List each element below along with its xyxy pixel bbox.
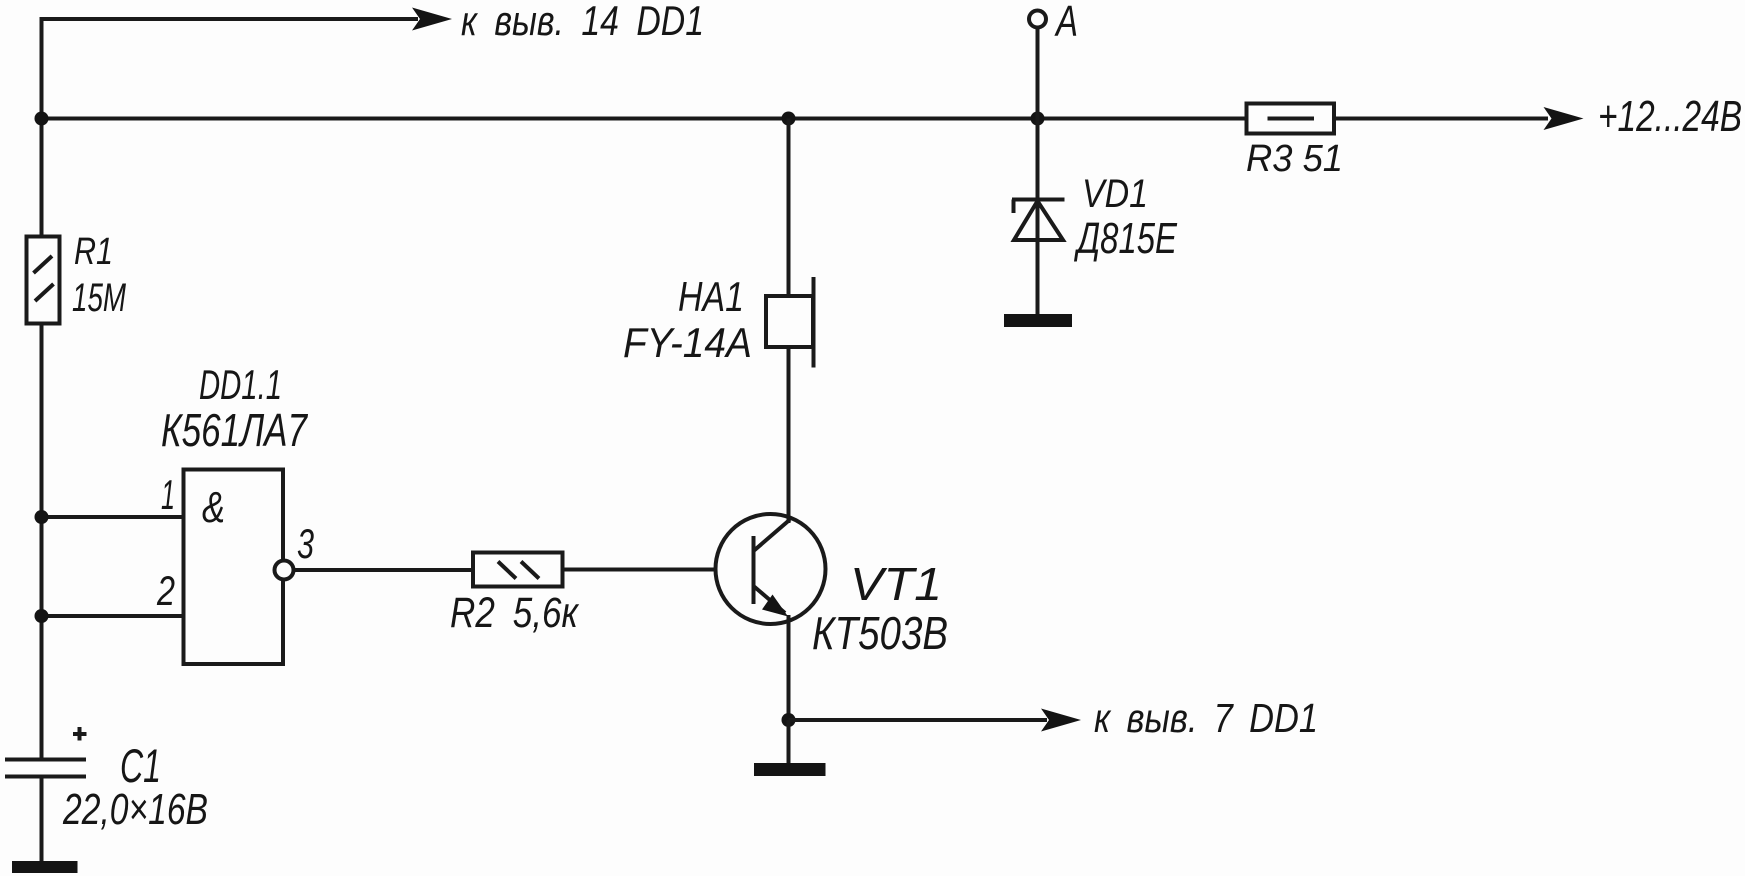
node A terminal circle <box>1029 11 1046 28</box>
VT1 emitter stroke <box>754 586 786 613</box>
capacitor C1 bottom plate <box>5 775 86 779</box>
junction: HA1 branch / bus <box>782 112 796 126</box>
svg-text:А: А <box>1054 0 1078 46</box>
zener VD1 cathode tick <box>1012 200 1016 214</box>
VT1 collector stroke <box>754 520 791 552</box>
R2 power slash marks <box>498 562 516 579</box>
wire: +V bus right segment after R3 <box>1334 117 1548 121</box>
svg-text:К561ЛА7: К561ЛА7 <box>161 404 308 456</box>
svg-text:VT1: VT1 <box>850 558 942 610</box>
buzzer HA1 body <box>766 296 813 347</box>
VT1 base bar <box>752 536 756 604</box>
svg-text:1: 1 <box>161 471 175 518</box>
wire: HA1 branch from bus <box>787 119 791 297</box>
svg-text:DD1.1: DD1.1 <box>199 361 282 408</box>
svg-text:к выв. 7 DD1: к выв. 7 DD1 <box>1094 695 1318 741</box>
svg-text:3: 3 <box>297 520 314 567</box>
wire: C1 to ground <box>40 777 44 865</box>
arrow +12...24V <box>1544 107 1584 130</box>
zener VD1 triangle <box>1014 201 1063 240</box>
resistor R1 body <box>27 237 60 324</box>
svg-text:R2 5,6к: R2 5,6к <box>450 589 579 637</box>
capacitor C1 top plate <box>5 758 86 762</box>
svg-text:НА1: НА1 <box>678 273 744 320</box>
ground (VD1) <box>1004 314 1072 327</box>
wire: HA1 to collector <box>787 347 791 523</box>
svg-text:к выв. 14 DD1: к выв. 14 DD1 <box>461 0 704 44</box>
ground (C1) <box>12 861 78 873</box>
svg-text:+12...24В: +12...24В <box>1598 92 1742 141</box>
junction: rail / input 1 <box>35 510 49 524</box>
arrow to pin 7 DD1 <box>1041 709 1081 732</box>
ground (emitter) <box>754 763 826 776</box>
C1 polarity plus sign <box>73 732 87 736</box>
wire: emitter down to node <box>787 615 791 722</box>
svg-text:FY-14A: FY-14A <box>623 319 752 366</box>
wire: emitter node to pin 7 arrow <box>789 718 1048 722</box>
arrow to pin 14 DD1 <box>412 8 452 31</box>
gate output inversion circle <box>275 561 294 580</box>
wire: left rail vertical <box>40 17 44 759</box>
wire: +V bus left segment <box>42 117 1247 121</box>
wire: top horizontal to pin 14 arrow <box>40 17 419 21</box>
wire: gate input 1 <box>42 515 184 519</box>
resistor R3 body <box>1247 104 1335 134</box>
svg-text:R1: R1 <box>74 231 113 273</box>
zener VD1 cathode bar <box>1012 198 1065 202</box>
wire: gate output to R2 <box>294 568 474 572</box>
svg-text:15М: 15М <box>72 276 126 320</box>
svg-text:2: 2 <box>156 567 175 614</box>
junction: rail / input 2 <box>35 609 49 623</box>
wire: gate input 2 <box>42 614 184 618</box>
wire: emitter node to ground <box>787 720 791 765</box>
R3 power mark line <box>1268 117 1315 121</box>
junction: emitter node <box>782 713 796 727</box>
wire: R2 to transistor base <box>563 568 752 572</box>
junction: left rail / bus <box>35 112 49 126</box>
R1 power slash marks <box>34 256 53 273</box>
resistor R2 body <box>473 553 563 587</box>
junction: VD1 branch / bus <box>1031 112 1045 126</box>
HA1 piezo plate bar <box>812 277 816 368</box>
svg-text:R3 51: R3 51 <box>1246 138 1343 180</box>
svg-text:КТ503В: КТ503В <box>812 607 948 659</box>
wire: VD1 branch from bus through diode <box>1036 119 1040 317</box>
svg-text:&: & <box>202 483 225 532</box>
svg-text:Д815Е: Д815Е <box>1073 214 1177 263</box>
logic gate DD1.1 body <box>184 470 284 665</box>
VT1 emitter arrowhead <box>762 595 788 617</box>
wire: node A to bus <box>1036 28 1040 119</box>
svg-text:22,0×16В: 22,0×16В <box>62 785 208 834</box>
transistor VT1 circle <box>716 514 826 624</box>
svg-text:VD1: VD1 <box>1082 172 1148 216</box>
